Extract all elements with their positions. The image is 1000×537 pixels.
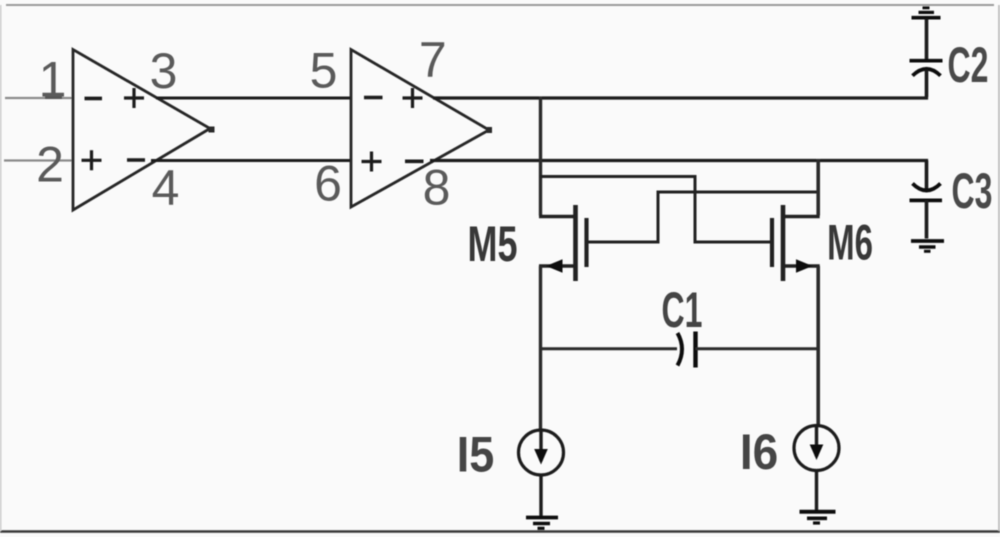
- wire I6 to ground: [815, 471, 818, 512]
- ground (I5): [526, 518, 558, 529]
- U1 output polarity mark (+): [124, 88, 144, 108]
- U1 output polarity mark (-): [127, 158, 145, 162]
- U1 inverting input mark (-): [85, 97, 103, 101]
- svg-text:8: 8: [423, 160, 451, 216]
- ground (I6): [800, 512, 836, 523]
- svg-text:2: 2: [36, 137, 64, 193]
- wire input pin 1: [5, 97, 73, 99]
- wire output 8 to C3: [430, 161, 927, 191]
- wire output 8 down to M6 drain: [816, 159, 820, 216]
- current source I5: [519, 430, 564, 475]
- U2 non-inverting input mark (+): [362, 152, 382, 172]
- pin 1 serif base on wire: [45, 96, 62, 99]
- ground (top, C2): [912, 8, 941, 18]
- ground (C3): [911, 241, 944, 251]
- U2 inverting input mark (-): [364, 96, 383, 100]
- wire C1 right: [696, 347, 819, 350]
- svg-text:I6: I6: [740, 425, 778, 480]
- wire pin 4 to pin 6: [151, 159, 351, 162]
- op-amp U2: [351, 50, 489, 208]
- svg-text:C1: C1: [662, 282, 703, 338]
- U2 apex nub: [486, 127, 492, 133]
- current source I6: [794, 426, 839, 471]
- capacitor C3: [910, 161, 943, 239]
- svg-text:C2: C2: [948, 37, 989, 93]
- U2 output polarity mark (-): [405, 160, 424, 164]
- wire M5 source down to I5: [539, 266, 542, 431]
- svg-text:5: 5: [310, 43, 338, 99]
- wire C1 left: [541, 347, 678, 350]
- transistor M5: [539, 205, 587, 281]
- U2 output polarity mark (+): [403, 88, 423, 108]
- wire U2 output 7 down to M5 drain: [539, 97, 542, 216]
- wire M6 source down to I6: [816, 266, 820, 427]
- svg-text:1: 1: [39, 52, 67, 108]
- capacitor C2: [910, 19, 943, 97]
- U1 apex nub: [209, 127, 215, 133]
- U1 non-inverting input mark (+): [82, 150, 102, 170]
- wire I5 to ground: [539, 475, 542, 517]
- wire pin 3 to pin 5: [156, 97, 351, 100]
- svg-text:4: 4: [152, 160, 180, 216]
- svg-text:M5: M5: [468, 217, 518, 272]
- wire M5 gate to M6 drain: [587, 192, 820, 242]
- svg-text:M6: M6: [827, 215, 873, 270]
- op-amp U1: [73, 50, 210, 211]
- svg-text:C3: C3: [952, 163, 993, 219]
- svg-text:I5: I5: [457, 427, 495, 483]
- transistor M6: [772, 205, 820, 281]
- wire input pin 2: [4, 159, 73, 161]
- capacitor C1: [678, 332, 696, 368]
- svg-text:3: 3: [150, 43, 178, 99]
- wire M5 drain to M6 gate: [541, 177, 773, 243]
- svg-text:7: 7: [419, 32, 447, 88]
- wire output 7 to C2: [433, 71, 927, 98]
- svg-text:6: 6: [314, 156, 342, 212]
